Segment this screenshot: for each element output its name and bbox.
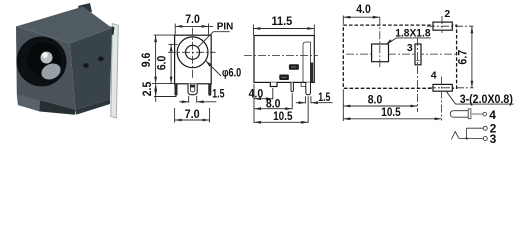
leg bottom ext line (154, 96, 177, 98)
dim 6.0: line (170, 44, 172, 83)
svg-text:2: 2 (444, 8, 450, 20)
1.8X1.8 underline (397, 37, 431, 39)
dim 10.5 top view: line (343, 118, 441, 120)
svg-text:11.5: 11.5 (272, 14, 293, 28)
barrel hole (17, 37, 67, 87)
side ext pinC center (307, 96, 309, 123)
pin 3 centerline (417, 38, 419, 112)
svg-text:1.5: 1.5 (318, 90, 330, 104)
inner flange contour (303, 42, 310, 82)
side hole 2 (98, 56, 104, 61)
dim 6.7: bottom ext line (428, 87, 474, 89)
dark slot 1 (289, 64, 299, 70)
svg-text:10.5: 10.5 (273, 109, 293, 123)
svg-text:4.0: 4.0 (356, 2, 371, 16)
plug tip bar (468, 109, 471, 119)
svg-text:2.5: 2.5 (140, 81, 154, 96)
side ext line left (253, 84, 255, 123)
dim 7.0 bottom: line (175, 119, 210, 121)
terminal 2 circle (483, 126, 487, 130)
pin highlight (42, 52, 48, 58)
dim 11.5: line (253, 28, 314, 30)
dim 8.0 side: line (254, 108, 292, 110)
dim 7.0 top: extension lines (174, 24, 176, 35)
wire pin2 (467, 128, 484, 138)
dim 9.6: line (155, 35, 157, 84)
dim 7.0 bottom: ext lines (174, 108, 176, 123)
pin B (291, 82, 293, 91)
svg-text:6.7: 6.7 (456, 50, 470, 65)
dim 6.7: line (471, 26, 473, 88)
dim 10.5 top view: left ext (342, 110, 344, 121)
dim 6.7: top ext line (427, 25, 474, 27)
switch spring caret (451, 132, 459, 140)
top tab (78, 3, 92, 14)
dim 4.0 top view: line (343, 16, 380, 18)
dashed body outline (343, 25, 456, 88)
wire pin4 (471, 113, 483, 115)
center terminal inner lines (190, 84, 194, 92)
svg-text:4.0: 4.0 (249, 86, 264, 100)
dim 10.5 side: line (254, 121, 308, 123)
dim 9.6: top ext line (154, 34, 175, 36)
pin 4 centerline vertical (441, 77, 443, 121)
base band right (76, 99, 111, 115)
photo of DC jack (isometric) (16, 3, 118, 118)
3-(2.0X0.8) leader (446, 91, 455, 104)
center pin (41, 52, 53, 64)
side centerline (244, 55, 318, 57)
dark slot 2 (279, 75, 289, 81)
plug barrel (450, 111, 468, 118)
top face (16, 7, 112, 44)
hole inner shade (27, 43, 61, 77)
dim 6.0: top ext line (169, 43, 178, 45)
square hole 1.8x1.8 (372, 44, 389, 62)
svg-text:4: 4 (431, 69, 437, 81)
front face (16, 27, 76, 110)
svg-text:7.0: 7.0 (185, 12, 200, 26)
base band front (17, 94, 76, 115)
square vertical centerline (379, 17, 381, 67)
step at bottom right (301, 82, 306, 86)
pin 3 inner mark (417, 60, 420, 62)
svg-text:3-(2.0X0.8): 3-(2.0X0.8) (460, 94, 513, 106)
metal lug pin (111, 24, 119, 119)
dim 1.5 front: line and arrows (179, 101, 189, 103)
terminal 4 circle (483, 112, 487, 116)
3-(2.0X0.8) underline (456, 103, 514, 105)
svg-text:3: 3 (490, 132, 497, 146)
dim 11.5: ext lines (252, 25, 254, 36)
dark contact bar (311, 63, 314, 83)
center terminal dark hole (190, 85, 194, 88)
pin 4 rect (433, 84, 452, 91)
dim 8.0 top view: line (343, 105, 417, 107)
inner pin circle (186, 45, 200, 59)
svg-text:3: 3 (407, 42, 413, 54)
horizontal centerline (346, 53, 459, 55)
dim 7.0 top: line (175, 25, 213, 27)
junction dot (465, 137, 467, 139)
horizontal centerline (168, 51, 216, 53)
side body rectangle (254, 36, 314, 83)
svg-text:4: 4 (489, 108, 496, 122)
pin C (306, 82, 311, 94)
svg-text:1.5: 1.5 (212, 87, 224, 101)
right side tab (105, 26, 115, 35)
pin 2 centerline vertical (441, 16, 443, 33)
pin 3 rect (415, 44, 421, 65)
dim 2.5: line (155, 84, 157, 102)
wire pin3 (459, 138, 483, 140)
outer circle (177, 37, 208, 68)
right mounting leg (209, 84, 211, 96)
vertical centerline (192, 28, 194, 79)
front body square (175, 35, 212, 84)
side hole 1 (83, 63, 89, 68)
svg-text:PIN: PIN (217, 20, 234, 32)
1.8X1.8 leader (387, 38, 397, 44)
svg-text:6.0: 6.0 (154, 55, 168, 70)
phi6.0 leader arrow (206, 61, 221, 76)
dim 1.5 side: ext lines (304, 96, 306, 103)
pin 2 rect (433, 22, 452, 30)
svg-text:7.0: 7.0 (185, 107, 200, 121)
base light facet (17, 95, 40, 112)
svg-text:φ6.0: φ6.0 (222, 65, 241, 79)
dim 4.0 side: line (254, 98, 273, 100)
PIN underline (213, 31, 229, 33)
svg-text:10.5: 10.5 (381, 105, 401, 119)
bottom ext line (body) (152, 83, 174, 85)
left mounting leg (175, 84, 177, 96)
right side face (70, 28, 112, 110)
dim 4.0 top view: ext line (342, 16, 344, 25)
dim 8.0 top view: left ext (342, 89, 344, 110)
pin base crescent (39, 60, 63, 82)
side ext pinA (272, 88, 274, 99)
svg-text:9.6: 9.6 (139, 52, 153, 67)
dim 7.0 top: arrows (175, 25, 182, 28)
pin A tab (270, 82, 277, 86)
top face ridge highlight (16, 27, 112, 44)
dim 1.5 side: line and arrows (296, 102, 306, 104)
dim 1.5 front: ext lines (188, 96, 190, 103)
side ext pinB (291, 93, 293, 109)
terminal 3 circle (483, 137, 487, 141)
center terminal pin (188, 84, 197, 95)
PIN leader (197, 32, 213, 48)
